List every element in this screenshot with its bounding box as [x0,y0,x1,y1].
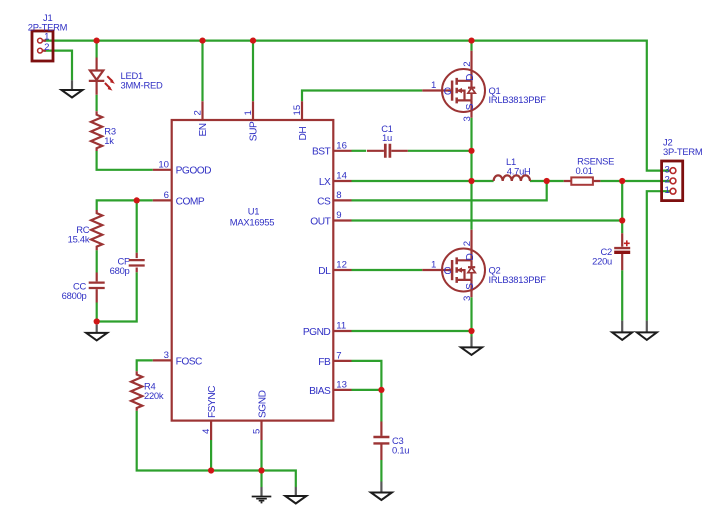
connector J1 [32,31,53,61]
capacitor C1 [367,144,408,158]
junction BIAS/C3 [378,387,384,393]
label Q2 [489,265,547,285]
junction EN on VIN rail [199,38,205,44]
ground (CC/CF) [86,325,107,341]
label Q1 [489,85,547,105]
earth ground (SGND) [252,487,272,503]
wire C1 to Q1 column [408,150,472,152]
svg-text:D: D [465,74,476,81]
ground (C2) [612,321,632,340]
svg-text:8: 8 [336,190,341,201]
junction LED branch on VIN rail [94,38,100,44]
label J1 name [28,12,68,33]
LED LED1 [89,58,115,95]
junction LX/Q1 source [468,178,474,184]
wire Q1 source column [470,118,472,230]
svg-text:3: 3 [462,116,473,121]
svg-text:6: 6 [164,190,169,201]
label R3 [104,126,116,146]
wire R3 to PGOOD [97,151,153,170]
svg-text:BST: BST [312,147,331,158]
junction PGND/Q2 source [468,328,474,334]
svg-text:6800p: 6800p [62,290,87,301]
wire Q1 drain from rail [470,41,472,51]
wire J2 pin1 to ground [647,191,670,320]
label Q2 GDS [444,254,477,290]
svg-text:3MM-RED: 3MM-RED [121,79,163,90]
ground (J2 pin1) [637,321,657,340]
wire SGND [260,440,262,487]
label U1 bottom pin names [207,386,268,418]
label U1 right pin numbers [336,141,347,391]
wire J1 pin2 to ground [44,51,72,81]
label R4 [144,381,164,401]
svg-text:2: 2 [462,241,473,246]
svg-text:220k: 220k [144,390,164,401]
label C3 [392,435,409,455]
label Q1 GDS [444,74,477,110]
junction FSYNC on ground rail [208,467,214,473]
svg-text:220u: 220u [592,255,612,266]
wire FOSC to R4 [137,360,153,371]
ground (Q2 source / PGND) [461,337,482,355]
label U1 [230,205,274,227]
label Q2 pins [431,241,473,301]
svg-text:5: 5 [252,429,263,434]
svg-text:1: 1 [664,185,669,196]
svg-text:SGND: SGND [258,390,269,418]
label C1 [381,123,393,143]
svg-text:2: 2 [462,61,473,66]
wire FSYNC [210,440,212,471]
IC U1 MAX16955 [153,101,352,440]
svg-text:FB: FB [318,357,331,368]
label CF [110,256,130,276]
wire PGND row [352,331,472,337]
svg-text:PGND: PGND [303,327,331,338]
svg-text:IRLB3813PBF: IRLB3813PBF [489,94,547,105]
wire DL to Q2 gate [352,269,423,271]
junction Q1 drain on VIN rail [468,38,474,44]
connector J2 [662,161,683,201]
svg-text:15.4k: 15.4k [68,233,90,244]
svg-text:CS: CS [317,196,331,207]
wire LX row [352,180,494,182]
wire CF bottom [97,272,137,321]
capacitor C3 [373,422,389,461]
label RSENSE [575,156,614,176]
label L1 [506,156,531,176]
svg-text:DL: DL [318,266,331,277]
svg-text:FOSC: FOSC [176,356,202,367]
wire C3 to ground [380,460,382,482]
svg-text:13: 13 [336,380,347,391]
wire Q2 source to PGND [470,297,472,331]
svg-text:2: 2 [664,174,669,185]
wire FB jog [352,361,382,390]
svg-text:12: 12 [336,260,347,271]
svg-text:3: 3 [462,296,473,301]
svg-text:2: 2 [44,42,49,53]
wire LED branch top [95,41,97,58]
wire SUP [252,41,254,102]
label LED1 [121,70,163,90]
svg-text:1k: 1k [104,135,114,146]
svg-text:LX: LX [319,177,331,188]
junction BST node [468,148,474,154]
svg-text:4: 4 [201,428,212,434]
capacitor CC [89,273,105,303]
label U1 left pin names [176,166,212,368]
transistor Q1 IRLB3813PBF [422,51,485,118]
wire CS jog [352,181,547,200]
svg-text:G: G [444,87,452,98]
svg-text:DH: DH [298,127,309,141]
svg-text:COMP: COMP [176,196,205,207]
junction CC/CF ground node [94,318,100,324]
svg-text:15: 15 [292,105,303,116]
svg-text:1: 1 [431,259,436,270]
svg-text:U1: U1 [248,205,260,216]
resistor RC [91,210,102,250]
svg-text:EN: EN [198,123,209,136]
svg-text:680p: 680p [110,265,130,276]
wire BST left [352,150,367,152]
svg-text:D: D [465,254,476,261]
ground (bottom rail) [285,487,306,504]
transistor Q2 IRLB3813PBF [422,230,485,297]
junction OUT/C2 [619,217,625,223]
svg-text:PGOOD: PGOOD [176,166,212,177]
svg-text:S: S [465,103,476,110]
wire VIN top rail [44,41,670,171]
label U1 bottom pin numbers [201,428,262,434]
svg-text:16: 16 [336,141,347,152]
junction SUP on VIN rail [250,38,256,44]
svg-text:9: 9 [336,210,341,221]
svg-text:7: 7 [336,351,341,362]
svg-text:FSYNC: FSYNC [207,386,218,418]
wire EN [201,41,203,102]
wire CC to gnd node [96,303,98,322]
resistor RSENSE [564,177,601,184]
svg-text:1u: 1u [382,132,392,143]
wire COMP line [97,200,153,210]
wire L1 to RSENSE [530,180,564,182]
ground (J1 pin2) [62,80,83,97]
svg-text:3P-TERM: 3P-TERM [663,146,703,157]
svg-text:G: G [444,266,452,277]
svg-text:3: 3 [164,350,169,361]
wire RSENSE to J2 pin2 [600,180,670,182]
junction COMP/CF [134,197,140,203]
svg-text:14: 14 [336,171,347,182]
capacitor CF [129,253,145,272]
svg-text:SUP: SUP [249,121,260,141]
svg-text:10: 10 [158,160,169,171]
label U1 top pin names [198,121,309,141]
svg-text:MAX16955: MAX16955 [230,216,274,227]
junction LX/RSENSE/J2 [619,178,625,184]
label U1 left pin numbers [158,160,169,362]
svg-text:0.01: 0.01 [575,165,592,176]
wire CF branch [136,200,138,252]
svg-text:S: S [465,283,476,290]
resistor R3 [91,111,102,151]
svg-text:1: 1 [431,80,436,91]
label CC [62,280,87,300]
svg-text:IRLB3813PBF: IRLB3813PBF [489,274,547,285]
wire BIAS row [352,390,382,422]
svg-text:2: 2 [193,110,204,115]
label J2 name [663,137,703,157]
junction SGND on ground rail [258,467,264,473]
wire LX to OUT node [621,181,623,221]
wire LED to R3 [95,95,97,111]
svg-text:OUT: OUT [310,216,330,227]
svg-text:11: 11 [336,321,346,332]
label U1 top pin numbers [193,105,304,116]
junction LX/CS [544,178,550,184]
wire R4 to bottom rail [137,411,296,487]
svg-text:BIAS: BIAS [309,386,331,397]
wire OUT row [352,221,623,234]
svg-text:4.7uH: 4.7uH [507,166,531,177]
wire DH to Q1 gate [302,91,422,102]
label Q1 pins [431,61,473,121]
label J1 pin numbers [44,32,49,53]
svg-text:1: 1 [243,110,254,115]
svg-text:0.1u: 0.1u [392,444,409,455]
label C2 [592,246,612,266]
capacitor C2 (polarized) [614,233,630,270]
inductor L1 [494,175,530,181]
resistor R4 [131,371,142,410]
label J2 pin numbers [664,164,669,196]
wire RC to CC [96,250,98,272]
ground (C3) [371,482,392,501]
label RC [68,224,90,244]
wire C2 to ground [621,270,623,320]
label U1 right pin names [303,147,331,397]
